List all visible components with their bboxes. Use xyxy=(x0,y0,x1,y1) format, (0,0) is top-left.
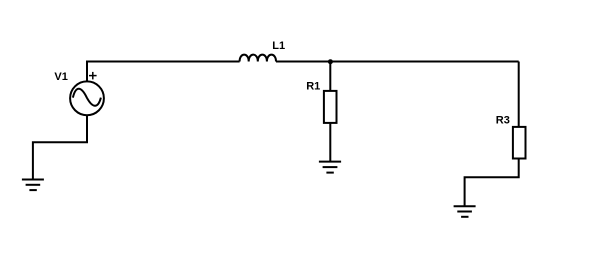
wire R3 to right ground xyxy=(465,159,519,207)
svg-text:R3: R3 xyxy=(496,115,510,127)
wire V1 top to inductor xyxy=(87,62,240,82)
voltage source V1 xyxy=(70,81,104,115)
svg-text:V1: V1 xyxy=(54,71,67,83)
inductor L1 xyxy=(240,55,276,62)
wire right corner down to R3 xyxy=(518,62,520,128)
svg-text:L1: L1 xyxy=(272,40,285,52)
wire R1 to ground xyxy=(329,123,331,162)
ground left xyxy=(22,180,44,191)
ground right xyxy=(454,206,476,217)
plus polarity mark xyxy=(89,72,97,80)
sine wave inside V1 xyxy=(73,89,101,106)
wire V1 bottom to left ground xyxy=(33,115,87,180)
ground under R1 xyxy=(319,162,341,173)
wire junction to R1 xyxy=(329,62,331,92)
junction node xyxy=(328,59,333,64)
resistor R3 xyxy=(513,127,526,159)
resistor R1 xyxy=(324,91,337,123)
wire inductor to top-right corner xyxy=(276,61,519,63)
svg-text:R1: R1 xyxy=(306,81,320,93)
